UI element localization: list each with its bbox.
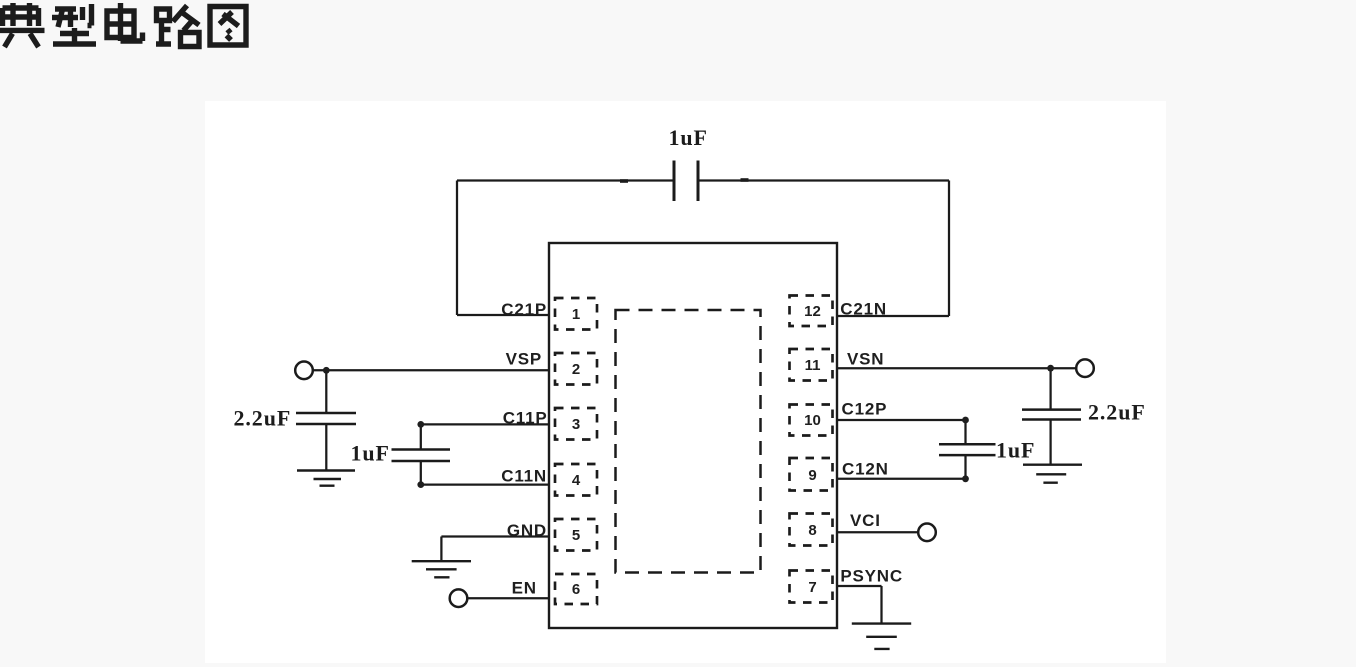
- ground under left 2.2uF: [297, 471, 355, 486]
- svg-text:EN: EN: [512, 579, 537, 598]
- wire pin6 EN: [468, 597, 550, 599]
- svg-text:3: 3: [572, 416, 580, 433]
- ground under PSYNC: [852, 624, 911, 649]
- pin 6 box: [555, 574, 597, 604]
- wire nub artifact right: [741, 178, 749, 182]
- capacitor C2 1uF (flying cap top) plates: [674, 161, 698, 202]
- 典: [0, 3, 45, 47]
- wire pin8 VCI: [837, 531, 918, 533]
- pin 11 box: [790, 349, 833, 381]
- junction VSN: [1047, 365, 1054, 372]
- svg-text:PSYNC: PSYNC: [840, 566, 903, 585]
- diagram panel: [205, 101, 1166, 663]
- terminal VCI: [918, 524, 936, 542]
- capacitor C5 1uF right plates: [939, 444, 996, 455]
- junction C12P: [962, 417, 969, 424]
- svg-text:6: 6: [572, 581, 580, 598]
- svg-text:VSP: VSP: [506, 349, 542, 368]
- ground under right 2.2uF: [1023, 465, 1082, 483]
- svg-text:C11N: C11N: [501, 466, 547, 485]
- svg-text:8: 8: [808, 522, 816, 539]
- pin 9 box: [790, 458, 833, 491]
- wire top loop left vertical: [456, 181, 458, 316]
- pin 3 box: [555, 408, 597, 440]
- svg-text:4: 4: [572, 472, 581, 489]
- svg-text:1uF: 1uF: [669, 125, 708, 150]
- svg-text:12: 12: [804, 303, 821, 320]
- IC U1 inner dashed outline: [616, 310, 761, 573]
- wire VSP cap drop: [325, 370, 327, 470]
- svg-text:2: 2: [572, 361, 580, 378]
- wire pin4 C11N: [421, 483, 549, 485]
- pin 2 box: [555, 353, 597, 385]
- ground under GND pin: [412, 561, 471, 577]
- svg-text:VCI: VCI: [850, 511, 881, 530]
- svg-text:2.2uF: 2.2uF: [1088, 400, 1146, 425]
- wire pin3 C11P: [421, 423, 549, 425]
- 电: [107, 3, 143, 41]
- wire pin11 VSN: [837, 367, 1076, 369]
- svg-text:C11P: C11P: [503, 409, 548, 428]
- svg-text:C12N: C12N: [842, 459, 889, 478]
- svg-text:5: 5: [572, 527, 580, 544]
- svg-text:1uF: 1uF: [351, 441, 390, 466]
- svg-text:11: 11: [805, 357, 821, 374]
- svg-text:10: 10: [804, 412, 821, 429]
- capacitor C1 2.2uF left plates: [296, 413, 356, 424]
- title 典型电路图 (hand-drawn glyphs): [0, 3, 246, 47]
- pin 8 box: [790, 514, 833, 546]
- svg-text:C21N: C21N: [840, 300, 887, 319]
- pin 12 box: [790, 296, 833, 327]
- junction VSP: [323, 367, 330, 374]
- wire pin12 C21N: [837, 315, 949, 317]
- svg-text:C21P: C21P: [501, 300, 547, 319]
- wire GND drop: [440, 537, 442, 562]
- 型: [52, 4, 96, 44]
- capacitor C3 1uF left plates: [392, 450, 451, 462]
- 路: [156, 6, 199, 47]
- wire left 1uF cap vertical: [420, 424, 422, 484]
- wire pin1 C21P: [457, 314, 549, 316]
- svg-text:7: 7: [808, 579, 816, 596]
- pin 5 box: [555, 519, 597, 551]
- 图: [210, 7, 246, 46]
- wire pin2 VSP: [313, 369, 549, 371]
- junction C11P: [417, 421, 424, 428]
- pin 4 box: [555, 464, 597, 496]
- svg-text:C12P: C12P: [842, 399, 888, 418]
- capacitor C4 2.2uF right plates: [1022, 410, 1081, 420]
- svg-text:GND: GND: [507, 521, 547, 540]
- wire top loop top-left horizontal: [457, 179, 673, 181]
- IC U1 body: [549, 243, 837, 628]
- wire pin9 C12N: [837, 478, 966, 480]
- svg-text:VSN: VSN: [847, 350, 884, 369]
- wire top loop top-right horizontal: [700, 179, 950, 181]
- svg-text:1: 1: [572, 306, 580, 323]
- wire VSN cap drop: [1049, 368, 1051, 465]
- terminal VSP: [295, 362, 313, 380]
- wire top loop right vertical: [948, 181, 950, 317]
- wire right 1uF cap vertical: [964, 420, 966, 479]
- pin 1 box: [555, 298, 597, 330]
- wire nub artifact left: [620, 179, 628, 183]
- wire pin5 GND: [441, 535, 549, 537]
- wire pin7 PSYNC: [837, 586, 882, 624]
- svg-text:9: 9: [808, 467, 816, 484]
- svg-text:2.2uF: 2.2uF: [234, 406, 292, 431]
- terminal EN: [450, 589, 468, 607]
- terminal VSN: [1076, 359, 1094, 377]
- wire pin10 C12P: [837, 419, 966, 421]
- pin 10 box: [790, 405, 833, 436]
- svg-text:1uF: 1uF: [996, 438, 1035, 463]
- junction C12N: [962, 475, 969, 482]
- junction C11N: [417, 481, 424, 488]
- pin 7 box: [790, 571, 833, 603]
